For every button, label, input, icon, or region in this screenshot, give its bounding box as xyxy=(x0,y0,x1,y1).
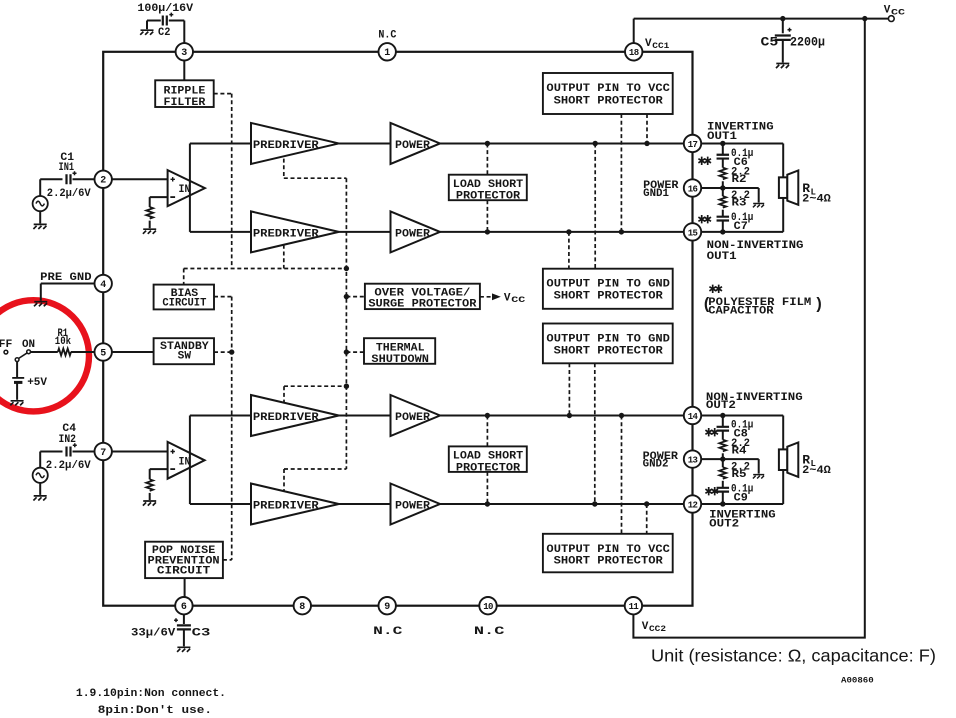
svg-text:SHORT PROTECTOR: SHORT PROTECTOR xyxy=(554,346,664,358)
svg-text:PREDRIVER: PREDRIVER xyxy=(253,228,319,240)
svg-text:OUTPUT PIN TO VCC: OUTPUT PIN TO VCC xyxy=(546,83,670,95)
svg-text:16: 16 xyxy=(688,184,698,194)
svg-text:C3: C3 xyxy=(192,628,211,640)
svg-text:SURGE PROTECTOR: SURGE PROTECTOR xyxy=(368,299,477,311)
svg-text:V: V xyxy=(642,621,649,633)
svg-text:+5V: +5V xyxy=(27,377,47,389)
svg-text:CAPACITOR: CAPACITOR xyxy=(708,305,774,317)
svg-text:SHORT PROTECTOR: SHORT PROTECTOR xyxy=(554,290,664,302)
svg-text:OUT1: OUT1 xyxy=(707,251,737,263)
svg-text:PRE GND: PRE GND xyxy=(40,272,92,284)
svg-text:2200µ: 2200µ xyxy=(790,36,825,50)
svg-text:2.2µ/6V: 2.2µ/6V xyxy=(47,188,91,200)
svg-text:8pin:Don't use.: 8pin:Don't use. xyxy=(98,705,212,717)
svg-text:OUT1: OUT1 xyxy=(707,131,737,143)
svg-text:POWER: POWER xyxy=(395,500,430,512)
svg-text:1.9.10pin:Non connect.: 1.9.10pin:Non connect. xyxy=(76,688,226,700)
svg-text:2~4Ω: 2~4Ω xyxy=(802,465,831,477)
svg-text:7: 7 xyxy=(100,448,106,459)
svg-text:15: 15 xyxy=(688,228,698,238)
svg-text:R4: R4 xyxy=(732,446,747,458)
svg-text:N.C: N.C xyxy=(474,626,505,638)
svg-text:V: V xyxy=(884,5,891,17)
svg-text:IN1: IN1 xyxy=(59,162,75,174)
svg-text:N.C: N.C xyxy=(373,626,403,638)
svg-text:10: 10 xyxy=(483,602,493,612)
svg-text:33µ/6V: 33µ/6V xyxy=(131,628,176,640)
svg-text:10k: 10k xyxy=(55,336,72,348)
svg-text:A00860: A00860 xyxy=(841,676,874,685)
svg-text:V: V xyxy=(504,293,511,305)
svg-text:CC: CC xyxy=(511,296,525,305)
svg-text:R5: R5 xyxy=(732,469,747,481)
svg-text:C5: C5 xyxy=(761,36,779,50)
svg-text:12: 12 xyxy=(688,500,698,510)
svg-text:IN: IN xyxy=(179,184,191,196)
svg-text:LOAD SHORT: LOAD SHORT xyxy=(453,451,524,463)
svg-text:5: 5 xyxy=(100,348,106,359)
svg-text:FILTER: FILTER xyxy=(164,97,206,109)
svg-text:9: 9 xyxy=(384,602,390,613)
svg-text:PREDRIVER: PREDRIVER xyxy=(253,412,319,424)
svg-text:RIPPLE: RIPPLE xyxy=(164,85,206,97)
svg-text:SHORT PROTECTOR: SHORT PROTECTOR xyxy=(554,556,664,568)
svg-text:13: 13 xyxy=(688,456,698,466)
svg-text:GND1: GND1 xyxy=(643,188,669,200)
svg-text:6: 6 xyxy=(181,602,187,613)
svg-text:THERMAL: THERMAL xyxy=(376,342,425,354)
svg-text:2.2µ/6V: 2.2µ/6V xyxy=(46,460,91,472)
svg-text:OUT2: OUT2 xyxy=(709,518,739,530)
svg-text:4: 4 xyxy=(100,280,106,291)
svg-text:3: 3 xyxy=(181,48,187,59)
svg-text:N.C: N.C xyxy=(378,30,396,42)
svg-text:LOAD SHORT: LOAD SHORT xyxy=(453,179,524,191)
svg-text:R3: R3 xyxy=(732,198,747,210)
svg-text:2~4Ω: 2~4Ω xyxy=(802,194,831,206)
svg-text:IN: IN xyxy=(179,456,191,468)
svg-text:CC1: CC1 xyxy=(652,42,669,51)
svg-text:11: 11 xyxy=(629,602,640,612)
svg-text:OFF: OFF xyxy=(0,339,12,351)
svg-text:POWER: POWER xyxy=(395,412,430,424)
svg-text:CIRCUIT: CIRCUIT xyxy=(162,298,206,310)
svg-text:OUTPUT PIN TO GND: OUTPUT PIN TO GND xyxy=(546,334,670,346)
svg-text:OUTPUT PIN TO GND: OUTPUT PIN TO GND xyxy=(546,278,670,290)
svg-text:SW: SW xyxy=(178,350,192,362)
svg-text:CIRCUIT: CIRCUIT xyxy=(157,566,211,578)
svg-text:V: V xyxy=(645,38,652,50)
svg-text:18: 18 xyxy=(629,48,639,58)
svg-text:17: 17 xyxy=(688,140,698,150)
svg-text:POWER: POWER xyxy=(395,140,430,152)
svg-text:POWER: POWER xyxy=(395,228,430,240)
svg-text:SHORT PROTECTOR: SHORT PROTECTOR xyxy=(554,95,664,107)
svg-text:1: 1 xyxy=(384,48,390,59)
svg-text:SHUTDOWN: SHUTDOWN xyxy=(371,354,429,366)
svg-text:R2: R2 xyxy=(732,174,747,186)
svg-text:14: 14 xyxy=(688,412,699,422)
svg-text:OUT2: OUT2 xyxy=(706,400,736,412)
svg-text:Unit (resistance: Ω, capacitan: Unit (resistance: Ω, capacitance: F) xyxy=(651,646,936,666)
svg-text:C7: C7 xyxy=(734,221,748,233)
svg-text:C9: C9 xyxy=(734,492,748,504)
svg-text:): ) xyxy=(814,296,824,314)
svg-text:2: 2 xyxy=(100,176,106,187)
svg-text:CC2: CC2 xyxy=(649,625,666,634)
svg-text:CC: CC xyxy=(891,9,905,18)
svg-text:ON: ON xyxy=(22,339,35,351)
svg-text:PREDRIVER: PREDRIVER xyxy=(253,500,319,512)
svg-text:8: 8 xyxy=(299,602,305,613)
svg-text:GND2: GND2 xyxy=(643,458,669,470)
svg-text:OUTPUT PIN TO VCC: OUTPUT PIN TO VCC xyxy=(546,544,670,556)
svg-text:IN2: IN2 xyxy=(59,434,77,446)
svg-text:PREDRIVER: PREDRIVER xyxy=(253,140,319,152)
svg-text:C2: C2 xyxy=(158,27,170,39)
svg-text:100µ/16V: 100µ/16V xyxy=(137,3,193,15)
